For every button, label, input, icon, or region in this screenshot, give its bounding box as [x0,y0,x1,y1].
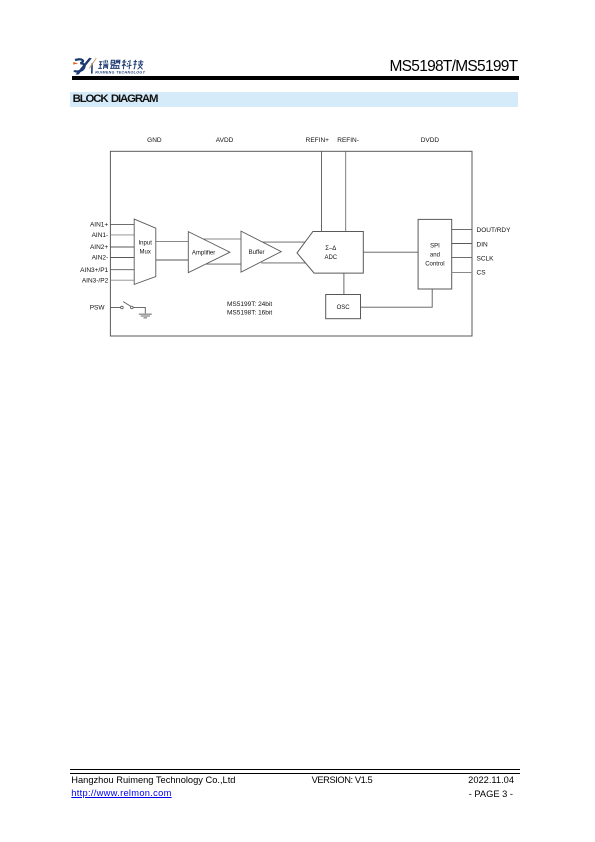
wire ADC to OSC [343,273,345,294]
pin label REFIN+ [306,137,330,144]
BLOCK DIAGRAM drawing [60,130,540,345]
svg-text:and: and [430,253,440,259]
wire ADC to SPI [363,251,418,253]
svg-text:AIN1+: AIN1+ [90,222,108,229]
switch PSW lever [123,302,131,307]
svg-text:MS5198T: 16bit: MS5198T: 16bit [227,309,272,316]
note MS5199T resolution [227,301,272,308]
wire buffer to ADC top [263,241,306,243]
footer page [414,789,513,799]
svg-text:Input: Input [139,241,153,247]
wire AIN2+ [110,246,134,248]
pin label DVDD [421,137,440,144]
chinese character ke [121,60,132,69]
footer thin rule [70,772,520,775]
svg-text:OSC: OSC [337,305,351,311]
note MS5198T resolution [227,309,272,316]
wire AIN2- [110,257,134,259]
pin label DOUT/RDY [477,227,512,234]
block input mux [134,219,156,284]
svg-text:SCLK: SCLK [477,255,495,262]
title MS5198T/MS5199T [380,59,517,75]
pin label AIN3-/P2 [82,277,109,284]
wire DIN [452,243,472,245]
svg-text:REFIN+: REFIN+ [306,137,330,144]
logo M right stroke [91,62,93,73]
svg-text:MS5199T: 24bit: MS5199T: 24bit [227,301,272,308]
logo M main diagonal [76,58,92,75]
svg-text:AIN2+: AIN2+ [90,244,108,251]
wire PSW to ground [133,307,145,313]
wire AIN3-/P2 [110,279,134,281]
svg-text:CS: CS [477,270,487,277]
chinese character rui [98,60,109,69]
wire DOUT/RDY [452,228,472,230]
pin label AIN1- [92,232,109,239]
amplifier triangle [188,232,230,273]
wire AIN1+ [110,223,134,225]
wire SCLK [452,257,472,259]
section bar [70,92,518,107]
pin label AIN3+/P1 [80,267,108,274]
svg-text:RUIMENG TECHNOLOGY: RUIMENG TECHNOLOGY [95,70,145,74]
svg-text:DOUT/RDY: DOUT/RDY [477,227,512,234]
svg-text:Σ–Δ: Σ–Δ [325,246,336,252]
pin label CS [477,270,487,277]
wire REFIN- [345,151,347,231]
chinese character meng [110,60,121,68]
footer company [71,775,235,785]
pin label AVDD [216,137,234,144]
pin label GND [147,137,162,144]
wire OSC to SPI [361,289,433,307]
svg-text:ADC: ADC [324,255,337,261]
svg-text:SPI: SPI [430,243,440,249]
logo graphic [70,54,162,76]
pin label SCLK [477,255,495,262]
switch PSW contact left [121,306,124,309]
sigma-delta ADC block [297,232,363,274]
wire CS [452,272,472,274]
svg-text:GND: GND [147,137,162,144]
svg-text:REFIN-: REFIN- [337,137,359,144]
OSC block [326,295,361,319]
svg-text:AIN3-/P2: AIN3-/P2 [82,277,109,284]
buffer triangle [241,231,281,272]
pin label AIN1+ [90,222,108,229]
svg-text:Control: Control [425,261,444,267]
pin label AIN2+ [90,244,108,251]
svg-text:AVDD: AVDD [216,137,234,144]
wire REFIN+ [321,151,323,231]
svg-text:DIN: DIN [477,241,489,248]
header rule [72,76,519,79]
svg-text:Buffer: Buffer [249,250,265,256]
switch PSW contact right [131,306,134,309]
wire mux to amplifier top [156,241,189,243]
footer version [312,775,373,785]
svg-text:AIN2-: AIN2- [92,255,109,262]
wire amplifier to buffer bottom [206,263,241,265]
pin label AIN2- [92,255,109,262]
wire amplifier to buffer top [203,238,241,240]
svg-text:Amplifier: Amplifier [192,250,215,256]
outer boundary box [110,151,472,336]
pin label DIN [477,241,489,248]
ground symbol [139,314,152,318]
wire mux to amplifier bottom [156,259,189,261]
SPI and Control block [418,219,452,289]
wire PSW [110,307,120,309]
svg-text:AIN3+/P1: AIN3+/P1 [80,267,108,274]
pin label PSW [90,305,106,312]
svg-text:PSW: PSW [90,305,106,312]
chinese character ji [133,60,144,69]
footer url [71,788,171,798]
logo tan diagonal [89,58,96,68]
svg-text:AIN1-: AIN1- [92,232,109,239]
pin label REFIN- [337,137,359,144]
footer thick rule [70,769,520,771]
logo 3-curl [74,59,84,71]
svg-text:DVDD: DVDD [421,137,440,144]
wire buffer to ADC bottom [261,262,305,264]
footer date [414,775,514,785]
logo orange arrow [73,62,78,65]
svg-text:Mux: Mux [140,250,151,256]
wire AIN3+/P1 [110,269,134,271]
wire AIN1- [110,234,134,236]
